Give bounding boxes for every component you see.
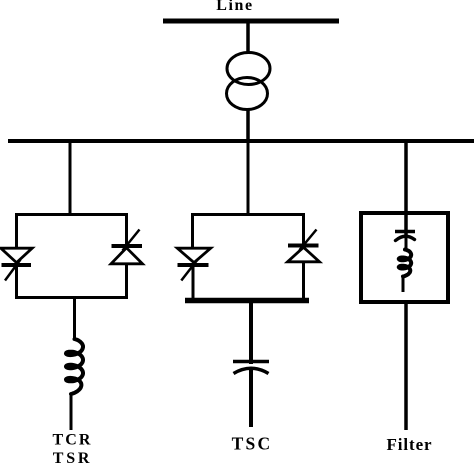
wire left box right side lower [125, 263, 128, 297]
filter box outline [361, 213, 448, 302]
capacitor C2 top plate [395, 230, 415, 234]
thyristor V1 gate [5, 260, 21, 281]
thyristor V3 triangle (down) [177, 248, 210, 262]
inductor L1 (TCR reactor coil) [66, 339, 83, 394]
thyristor V2 cathode bar [112, 244, 143, 248]
wire from top bus to transformer [246, 23, 250, 54]
thyristor V4 gate [300, 230, 317, 251]
thyristor V3 cathode bar [178, 263, 209, 267]
TSC valve box top side [191, 213, 305, 216]
svg-text:TSR: TSR [53, 450, 93, 463]
wire middle box right side lower [302, 262, 305, 299]
capacitor C1 curved plate [234, 368, 269, 373]
wire top bus bar [163, 19, 339, 24]
wire middle box left side upper [191, 213, 194, 248]
transformer T1 secondary winding [227, 78, 268, 110]
wire TCR box to reactor [73, 297, 76, 340]
thyristor V4 cathode bar [288, 244, 319, 248]
wire left box left side upper [15, 213, 18, 248]
thyristor V3 gate [181, 259, 198, 281]
wire bus to TSC branch [247, 143, 250, 215]
wire C2 to L2 [405, 236, 408, 250]
capacitor C2 curved plate [396, 236, 415, 240]
TCR valve box bottom side [15, 296, 128, 299]
wire capacitor to terminal [249, 368, 253, 427]
wire main bus bar [8, 139, 474, 143]
inductor L2 (filter coil) [399, 250, 411, 277]
capacitor C1 top plate [233, 360, 269, 364]
wire filter coil bottom lead [402, 276, 405, 292]
wire from transformer to main bus [246, 108, 250, 139]
svg-text:Filter: Filter [387, 435, 433, 454]
wire bus to TCR branch [69, 143, 72, 215]
wire left box left side lower [15, 264, 18, 297]
transformer T1 primary winding [227, 53, 270, 85]
svg-text:TSC: TSC [232, 434, 273, 454]
thyristor V1 cathode bar [2, 263, 32, 267]
svg-text:TCR: TCR [52, 432, 92, 449]
wire left box right side upper [125, 213, 128, 245]
wire reactor to terminal [70, 393, 73, 430]
thyristor V4 triangle (up) [288, 247, 320, 261]
wire TSC box to capacitor [249, 301, 253, 364]
thyristor V2 gate [123, 230, 140, 251]
svg-text:Line: Line [216, 0, 254, 14]
wire filter box to terminal [404, 302, 408, 430]
thyristor V2 triangle (up) [111, 248, 143, 264]
TCR valve box top side [15, 213, 128, 216]
wire middle box right side upper [302, 213, 305, 244]
wire filter top lead [404, 213, 408, 236]
wire middle box left side lower [192, 264, 195, 299]
thyristor V1 triangle (down) [1, 248, 32, 262]
TSC valve box bottom side (thick) [185, 298, 309, 304]
wire bus to Filter branch [404, 143, 408, 213]
